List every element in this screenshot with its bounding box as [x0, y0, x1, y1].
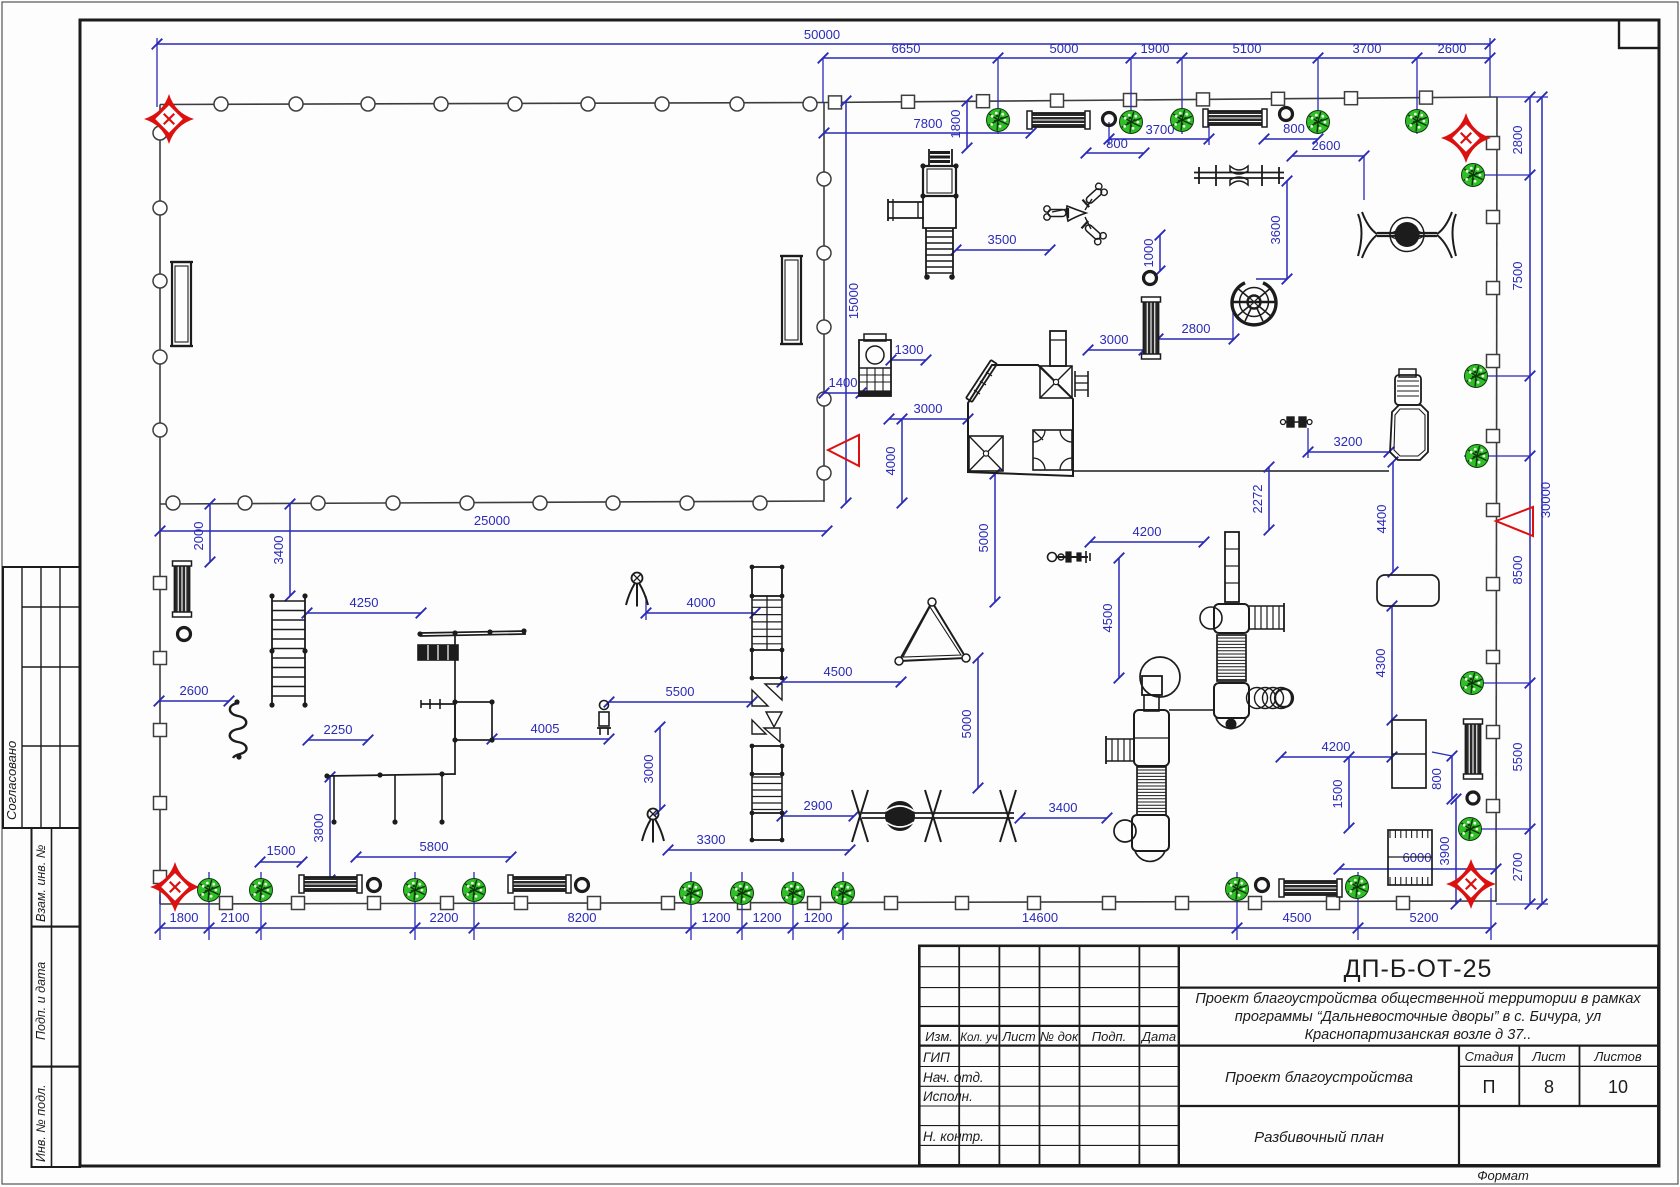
seesaw C top — [1194, 165, 1284, 186]
carousel E big — [1232, 283, 1276, 325]
house play structure H — [966, 331, 1088, 476]
svg-text:Исполн.: Исполн. — [923, 1089, 973, 1104]
left margin block Inv N podl — [32, 1067, 81, 1167]
inner fence round posts horizontal — [166, 496, 767, 510]
dimension 2272 vertical — [1250, 462, 1274, 536]
svg-text:4500: 4500 — [1100, 604, 1115, 633]
dimension 1500 right vertical — [1330, 752, 1354, 834]
dimension 3000 house — [884, 401, 974, 424]
svg-text:3000: 3000 — [641, 755, 656, 784]
svg-text:15000: 15000 — [846, 283, 861, 319]
bench yard right vertical — [780, 256, 803, 344]
dimension 2000 vertical left — [191, 499, 215, 568]
urn ring top right — [1280, 108, 1293, 121]
svg-text:Подп.: Подп. — [1092, 1029, 1127, 1044]
svg-text:1200: 1200 — [702, 910, 731, 925]
bench yard left vertical — [170, 262, 193, 346]
svg-text:800: 800 — [1106, 136, 1128, 151]
svg-text:2700: 2700 — [1510, 853, 1525, 882]
svg-text:800: 800 — [1283, 121, 1305, 136]
dimension 5000 upper — [976, 469, 1000, 608]
svg-text:3400: 3400 — [1049, 800, 1078, 815]
svg-text:3600: 3600 — [1268, 216, 1283, 245]
dimension 3400 bottom — [1015, 800, 1113, 823]
left fence wire — [159, 105, 161, 905]
svg-text:Формат: Формат — [1477, 1168, 1529, 1183]
seesaw K double — [852, 790, 1016, 842]
svg-text:4005: 4005 — [531, 721, 560, 736]
exercise bike P — [597, 701, 611, 736]
flagstone path — [752, 684, 782, 742]
top-right format box — [1619, 20, 1659, 48]
title block — [919, 946, 1658, 1166]
svg-text:1200: 1200 — [753, 910, 782, 925]
svg-text:2000: 2000 — [191, 522, 206, 551]
dimension 25000 — [155, 513, 833, 536]
dimension 4250 — [302, 595, 427, 618]
svg-text:2250: 2250 — [324, 722, 353, 737]
dimension 800 right vertical — [1429, 751, 1457, 805]
svg-text:1800: 1800 — [170, 910, 199, 925]
svg-text:8500: 8500 — [1510, 556, 1525, 585]
dimension 5000 lower — [959, 653, 983, 794]
svg-text:1500: 1500 — [267, 843, 296, 858]
svg-text:Подп. и дата: Подп. и дата — [34, 962, 48, 1040]
left fence round posts — [153, 126, 167, 437]
svg-text:10: 10 — [1608, 1077, 1628, 1097]
bench bottom 1 — [299, 875, 362, 893]
svg-text:5200: 5200 — [1410, 910, 1439, 925]
dimension 5800 — [351, 839, 517, 862]
wall ladder R — [269, 593, 307, 707]
dimension 5500 — [604, 684, 758, 707]
dimension 4500 vertical tower — [1100, 553, 1124, 684]
svg-text:2600: 2600 — [1312, 138, 1341, 153]
left margin block Podp i data — [32, 927, 81, 1067]
left margin block Vzam inv — [32, 828, 81, 927]
trees right fence — [1459, 365, 1489, 841]
dimension 2600 left — [154, 683, 235, 706]
red triangle marker left — [828, 435, 859, 466]
inner fence round posts vertical — [817, 172, 831, 480]
geodetic marker bottom-left — [150, 862, 200, 912]
svg-text:ДП-Б-ОТ-25: ДП-Б-ОТ-25 — [1344, 955, 1493, 983]
svg-text:5500: 5500 — [1510, 743, 1525, 772]
svg-text:3800: 3800 — [311, 814, 326, 843]
dimension 30000 right — [1537, 92, 1553, 910]
bench right vertical — [1464, 719, 1483, 779]
svg-text:4000: 4000 — [687, 595, 716, 610]
dimension 2800 carousel — [1153, 303, 1240, 344]
dimension 1000 vertical — [1141, 230, 1165, 277]
urn ring yard left — [178, 628, 191, 641]
table rounded right — [1377, 575, 1439, 606]
walkway edge line — [1073, 470, 1389, 472]
trees top fence — [987, 109, 1429, 134]
bench left margin vertical — [173, 561, 192, 617]
right fence square posts — [1487, 137, 1500, 813]
urn ring bottom 1 — [368, 879, 381, 892]
svg-text:8200: 8200 — [568, 910, 597, 925]
svg-text:Инв. № подл.: Инв. № подл. — [34, 1084, 48, 1162]
svg-text:Нач. отд.: Нач. отд. — [923, 1070, 984, 1085]
svg-text:3900: 3900 — [1437, 837, 1452, 866]
svg-text:Лист: Лист — [1531, 1049, 1566, 1064]
svg-text:3700: 3700 — [1353, 41, 1382, 56]
svg-text:25000: 25000 — [474, 513, 510, 528]
dimension 4000 ladder — [641, 595, 761, 620]
dimension 3200 — [1303, 428, 1395, 458]
yard fence top wire — [160, 103, 824, 105]
urn ring right — [1467, 792, 1479, 804]
svg-text:2800: 2800 — [1182, 321, 1211, 336]
title block texts — [923, 955, 1642, 1183]
geodetic marker top-right — [1441, 113, 1491, 163]
bench bottom 2 — [508, 875, 571, 893]
svg-text:2100: 2100 — [221, 910, 250, 925]
play complex A tower and stairs — [888, 149, 959, 280]
svg-text:3000: 3000 — [1100, 332, 1129, 347]
svg-text:1000: 1000 — [1141, 239, 1156, 268]
dimension 2250 — [303, 722, 374, 745]
dimension 800 top second — [1259, 121, 1324, 144]
svg-text:14600: 14600 — [1022, 910, 1058, 925]
dimension 3800 vertical — [311, 772, 335, 886]
dimension 4005 — [487, 721, 615, 744]
svg-text:5500: 5500 — [666, 684, 695, 699]
svg-text:5800: 5800 — [420, 839, 449, 854]
svg-text:50000: 50000 — [804, 27, 840, 42]
svg-text:3500: 3500 — [988, 232, 1017, 247]
svg-text:Проект благоустройства обществ: Проект благоустройства общественной терр… — [1195, 991, 1641, 1007]
svg-text:5100: 5100 — [1233, 41, 1262, 56]
svg-text:Взам. инв. №: Взам. инв. № — [34, 844, 48, 922]
playground fence top wire — [824, 97, 1497, 103]
dimension 4200 towers — [1085, 524, 1210, 547]
svg-text:3200: 3200 — [1334, 434, 1363, 449]
svg-text:ГИП: ГИП — [923, 1050, 950, 1065]
dimension 3500 — [951, 232, 1056, 255]
svg-text:8: 8 — [1544, 1077, 1554, 1097]
svg-text:4250: 4250 — [350, 595, 379, 610]
dimension 3600 vertical — [1256, 176, 1292, 285]
ladder structure N1 — [750, 565, 785, 681]
table with benches right — [1388, 830, 1432, 885]
svg-text:800: 800 — [1429, 768, 1444, 790]
urn ring near bench mid — [1144, 272, 1157, 285]
dimension 3400 vertical left — [271, 499, 295, 602]
dimension 800 top first — [1081, 136, 1150, 158]
svg-text:4300: 4300 — [1373, 649, 1388, 678]
trampoline G — [859, 334, 891, 396]
dimension 1400 — [819, 375, 867, 398]
dimension 7800 — [819, 116, 1037, 138]
svg-text:4500: 4500 — [824, 664, 853, 679]
tower complex L lower tower — [1106, 657, 1180, 861]
svg-text:1200: 1200 — [804, 910, 833, 925]
dimension chain top row — [818, 41, 1496, 134]
inner yard fence vertical wire — [823, 103, 825, 503]
bottom fence square posts — [220, 897, 1410, 910]
tree right of top-right marker — [1462, 164, 1485, 187]
dimension 50000 top — [152, 27, 1496, 107]
svg-text:4200: 4200 — [1133, 524, 1162, 539]
dimension 3900 vertical — [1437, 794, 1461, 910]
triangle swing J — [895, 598, 970, 665]
svg-text:2900: 2900 — [804, 798, 833, 813]
svg-text:4500: 4500 — [1283, 910, 1312, 925]
svg-text:3000: 3000 — [914, 401, 943, 416]
workout complex Q — [324, 628, 526, 824]
playground fence square posts top — [829, 91, 1433, 109]
small exercise machine — [1048, 551, 1091, 563]
svg-text:Проект благоустройства: Проект благоустройства — [1225, 1069, 1413, 1086]
right fence wire — [1496, 97, 1497, 902]
bench mid vertical near carousel — [1142, 297, 1161, 359]
svg-text:4400: 4400 — [1374, 505, 1389, 534]
svg-text:5000: 5000 — [1050, 41, 1079, 56]
urn ring bottom 2 — [576, 879, 589, 892]
inner yard fence horizontal wire — [160, 501, 824, 504]
svg-text:7500: 7500 — [1510, 262, 1525, 291]
svg-text:Лист: Лист — [1001, 1029, 1036, 1044]
svg-text:3300: 3300 — [697, 832, 726, 847]
svg-text:Листов: Листов — [1593, 1049, 1642, 1064]
spring rocker — [1281, 417, 1313, 427]
dimension 4400 vertical — [1374, 457, 1398, 578]
svg-text:3400: 3400 — [271, 536, 286, 565]
svg-text:Изм.: Изм. — [925, 1029, 953, 1044]
dimension 3000 bench — [1083, 332, 1150, 355]
dimension 4300 vertical — [1373, 601, 1397, 726]
red triangle marker right — [1496, 507, 1533, 536]
tower complex L bridge — [1169, 709, 1214, 711]
svg-text:№ док: № док — [1040, 1029, 1079, 1044]
svg-text:5000: 5000 — [959, 710, 974, 739]
geodetic marker top-left — [144, 94, 194, 144]
geodetic marker bottom-right — [1446, 859, 1496, 909]
svg-text:6650: 6650 — [892, 41, 921, 56]
dimension chain bottom — [155, 872, 1497, 940]
svg-text:1900: 1900 — [1141, 41, 1170, 56]
streetlight 2 — [642, 809, 664, 843]
urn ring top bench — [1103, 113, 1116, 126]
dimension 1500 bottom left — [255, 843, 308, 867]
svg-text:Н. контр.: Н. контр. — [923, 1129, 984, 1144]
svg-text:3700: 3700 — [1146, 122, 1175, 137]
left fence square posts — [154, 577, 167, 884]
table double square right — [1392, 720, 1426, 788]
svg-text:1300: 1300 — [895, 342, 924, 357]
urn ring bottom 3 — [1256, 879, 1269, 892]
basket swing D — [1358, 212, 1456, 258]
dimension 4000 vertical — [883, 414, 907, 509]
svg-text:Согласовано: Согласовано — [4, 741, 19, 820]
svg-text:4200: 4200 — [1322, 739, 1351, 754]
trees bottom fence — [198, 876, 1369, 905]
svg-text:программы “Дальневосточные дво: программы “Дальневосточные дворы” в с. Б… — [1235, 1009, 1601, 1025]
yard fence round posts top — [214, 97, 817, 111]
dimension 2600 seesaw to swing — [1287, 138, 1370, 200]
dimension 15000 vertical — [841, 96, 861, 509]
svg-text:Разбивочный план: Разбивочный план — [1254, 1129, 1384, 1146]
dimension 2900 — [777, 798, 860, 821]
svg-text:2800: 2800 — [1510, 126, 1525, 155]
svg-text:П: П — [1483, 1077, 1496, 1097]
left margin block Soglasovano — [3, 567, 80, 828]
svg-text:Стадия: Стадия — [1465, 1049, 1514, 1064]
svg-text:5000: 5000 — [976, 524, 991, 553]
dimension 1300 — [886, 342, 932, 365]
svg-text:7800: 7800 — [914, 116, 943, 131]
dimension 1800 vertical top — [948, 96, 972, 154]
svg-text:Дата: Дата — [1140, 1029, 1176, 1044]
svg-text:2272: 2272 — [1250, 485, 1265, 514]
three-seat carousel B — [1044, 182, 1109, 246]
svg-text:1800: 1800 — [948, 110, 963, 139]
svg-text:Кол. уч: Кол. уч — [960, 1032, 998, 1044]
svg-text:Краснопартизанская возле д 37.: Краснопартизанская возле д 37.. — [1305, 1027, 1532, 1043]
tower complex L upper tower — [1200, 532, 1293, 730]
dimension 3700 top benches — [1104, 112, 1215, 145]
svg-text:1400: 1400 — [829, 375, 858, 390]
bench bottom 3 — [1279, 879, 1342, 897]
svg-text:2200: 2200 — [430, 910, 459, 925]
dimension 6000 — [1334, 850, 1502, 874]
bench top 2 — [1203, 109, 1267, 127]
dimension 3000 vertical lamp — [641, 722, 665, 816]
ladder structure N2 — [750, 744, 785, 843]
snake climber S — [230, 699, 247, 759]
svg-text:1500: 1500 — [1330, 780, 1345, 809]
dimension chain right — [1458, 92, 1548, 910]
svg-text:2600: 2600 — [180, 683, 209, 698]
svg-text:4000: 4000 — [883, 447, 898, 476]
bottom fence wire — [160, 901, 1496, 904]
dimension 4200 lower right — [1276, 739, 1398, 762]
dimension 3300 — [663, 832, 856, 855]
streetlight 1 — [626, 573, 648, 607]
svg-text:2600: 2600 — [1438, 41, 1467, 56]
rocket tower I — [1390, 369, 1428, 460]
svg-text:30000: 30000 — [1538, 482, 1553, 518]
bench top 1 — [1027, 111, 1090, 129]
dimension 4500 mid — [777, 664, 907, 687]
